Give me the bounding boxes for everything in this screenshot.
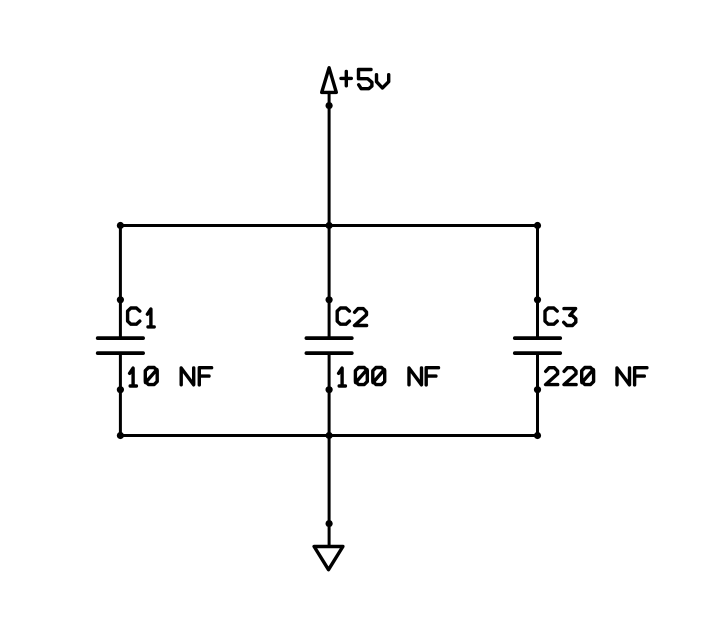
wire: C2 bottom pin to bottom bus bbox=[328, 353, 331, 435]
wire: C2 top pin from bus bbox=[328, 226, 331, 339]
wire: C1 top pin from bus bbox=[119, 226, 122, 339]
wire: ground stem bbox=[328, 436, 331, 547]
node: top bus right corner bbox=[534, 222, 541, 229]
node: bottom bus right corner bbox=[534, 432, 541, 439]
wire: bottom bus bbox=[120, 434, 537, 437]
node: C3 bottom pin dot bbox=[534, 386, 541, 393]
power symbol +5V (triangle) bbox=[322, 68, 337, 93]
wire: top bus bbox=[120, 224, 537, 227]
node: C1 bottom pin dot bbox=[117, 386, 124, 393]
label C2 bbox=[337, 308, 366, 326]
node: top bus middle junction bbox=[326, 222, 333, 229]
node: C1 top pin dot bbox=[117, 296, 124, 303]
node: bottom bus middle junction bbox=[326, 432, 333, 439]
label value 100 NF bbox=[339, 368, 439, 387]
node: junction on ground stem bbox=[326, 520, 333, 527]
capacitor C2 (plates) bbox=[306, 338, 351, 353]
wire: C3 bottom pin to bottom bus bbox=[536, 353, 539, 435]
node: C2 top pin dot bbox=[326, 296, 333, 303]
wire: +5V stem down to top bus bbox=[328, 92, 331, 225]
capacitor C3 (plates) bbox=[515, 338, 560, 353]
node: C3 top pin dot bbox=[534, 296, 541, 303]
label C1 bbox=[128, 308, 155, 327]
wire: C1 bottom pin to bottom bus bbox=[119, 353, 122, 435]
node: C2 bottom pin dot bbox=[326, 386, 333, 393]
label value 10 NF bbox=[130, 368, 212, 387]
node: junction on +5V stem bbox=[326, 102, 333, 109]
label C3 bbox=[545, 308, 576, 326]
capacitor C1 (plates) bbox=[98, 338, 143, 353]
node: bottom bus left corner bbox=[117, 432, 124, 439]
ground symbol (triangle) bbox=[314, 547, 343, 570]
wire: C3 top pin from bus bbox=[536, 226, 539, 339]
node: top bus left corner bbox=[117, 222, 124, 229]
label +5v bbox=[341, 70, 389, 89]
label value 220 NF bbox=[546, 368, 647, 385]
